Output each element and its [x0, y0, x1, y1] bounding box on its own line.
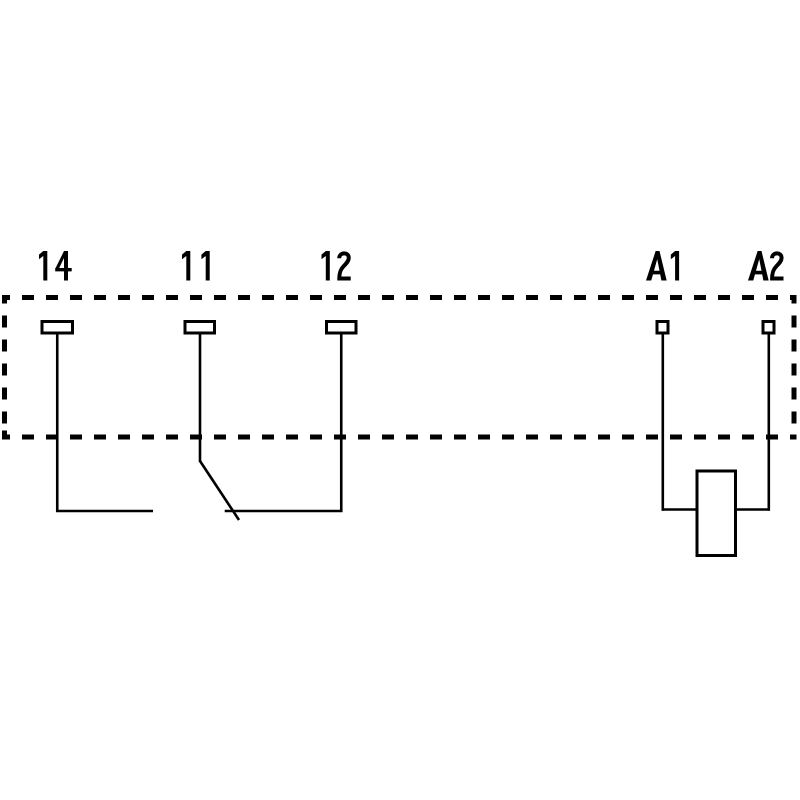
relay enclosure dashed outline: left edge — [2, 298, 7, 440]
wire: pin 14 vertical lead — [56, 335, 59, 513]
relay enclosure dashed outline: bottom edge — [2, 435, 797, 440]
wire: pin 12 vertical lead — [340, 335, 343, 513]
pin label 12 — [322, 251, 351, 281]
relay enclosure dashed outline: right edge — [792, 298, 797, 440]
wire: pin 11 vertical lead (common) — [199, 335, 202, 463]
pin label 14 — [39, 251, 72, 281]
wire: pin A1 vertical lead — [661, 335, 664, 511]
wire: A1 horizontal to coil — [662, 508, 698, 511]
relay coil A1-A2 — [697, 471, 736, 556]
terminal pin A2 — [763, 322, 774, 334]
relay enclosure dashed outline: top edge — [2, 295, 797, 300]
terminal pin 11 — [185, 322, 215, 334]
relay enclosure dashed outline: bottom-left corner wrap dash — [2, 431, 7, 438]
wire: moving contact arm from 11 — [200, 461, 239, 520]
terminal pin 12 — [327, 322, 357, 334]
pin label A2 — [748, 251, 784, 281]
wire: contact 12 horizontal (normally-closed contact) — [225, 510, 343, 513]
wire: pin A2 vertical lead — [767, 335, 770, 511]
wire: contact 14 horizontal (normally-open contact) — [56, 510, 153, 513]
wire: A2 horizontal to coil — [736, 508, 771, 511]
terminal pin 14 — [42, 322, 73, 334]
pin label 11 — [182, 251, 210, 281]
terminal pin A1 — [657, 322, 668, 334]
pin label A1 — [646, 251, 679, 281]
